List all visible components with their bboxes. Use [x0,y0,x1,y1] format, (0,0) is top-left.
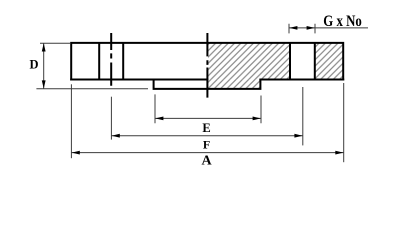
raised face outline [154,79,261,89]
dimension A: dimension line with arrows [71,151,343,155]
hatch section left of bolt hole [208,43,290,79]
hatch section right of bolt hole [315,43,342,79]
svg-text:E: E [202,121,210,135]
label G x No [323,13,362,30]
svg-text:D: D [29,58,38,72]
label A [201,154,212,169]
svg-text:G x No: G x No [323,13,362,30]
dimension E: extension lines [155,94,261,123]
label D [29,58,38,72]
bolt hole (left view) [99,43,123,80]
dimension A: extension lines [71,83,343,162]
label E [202,121,210,135]
bolt hole (section) edges [290,43,315,80]
dimension F: dimension line with arrows [111,134,302,138]
svg-text:A: A [201,154,212,169]
hatch raised face section [208,79,260,88]
bolt hole centerline [110,33,112,86]
flange body outline [70,43,344,81]
dimension G x No: dimension line [289,26,368,30]
dimension F: extension lines [111,87,302,145]
dimension G x No: extension ticks [289,24,315,34]
dimension D: dimension line with arrows [42,43,46,88]
svg-text:F: F [203,138,210,152]
dimension D: extension lines [36,43,148,88]
label F [203,138,210,152]
dimension E: dimension line with arrows [155,117,261,121]
center axis [206,33,208,98]
